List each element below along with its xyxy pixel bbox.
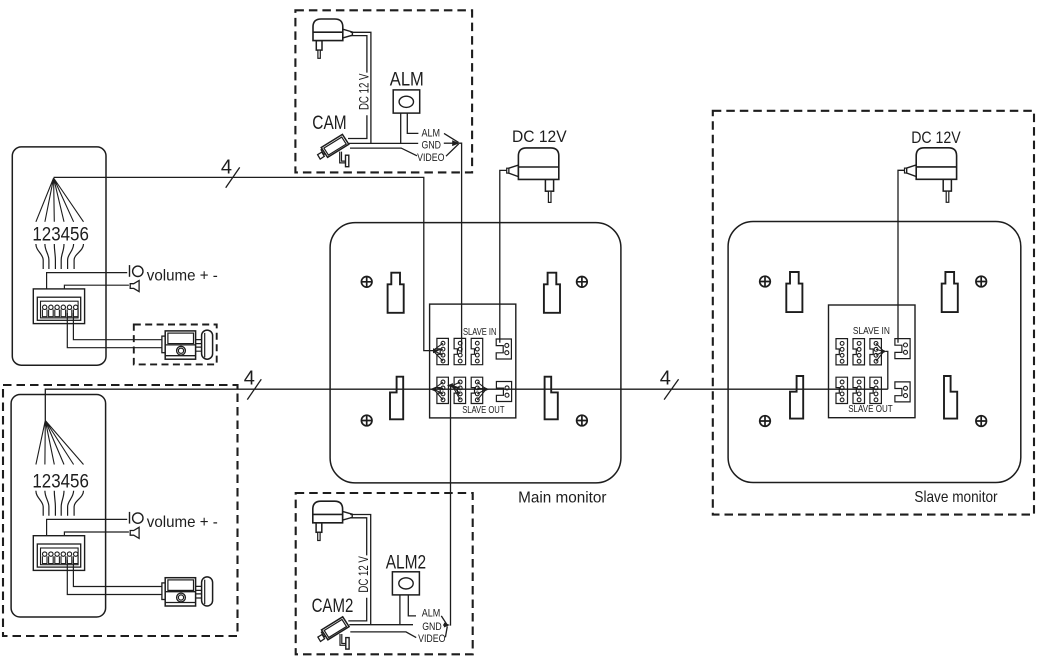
CAM2 VIDEO wire bbox=[350, 632, 416, 638]
main slave-in plug 1 bbox=[437, 338, 449, 364]
svg-text:CAM: CAM bbox=[312, 112, 346, 134]
main slave-out plug 2 wire fan bbox=[452, 382, 460, 400]
main monitor screw top-left bbox=[361, 277, 372, 288]
main monitor tab bottom-right bbox=[545, 377, 558, 420]
slave monitor screw top-right bbox=[976, 276, 987, 287]
slave slave-in plug 2 bbox=[853, 339, 865, 365]
slave monitor outline bbox=[728, 222, 1021, 483]
svg-text:DC 12V: DC 12V bbox=[911, 128, 961, 147]
ALM2 sensor wire to ALM bbox=[408, 595, 416, 616]
CAM dashed enclosure bbox=[295, 10, 472, 172]
svg-text:SLAVE IN: SLAVE IN bbox=[463, 326, 497, 338]
door station 2 dashed enclosure bbox=[3, 385, 238, 636]
CAM VIDEO wire bbox=[350, 148, 417, 156]
slave monitor dashed enclosure bbox=[713, 111, 1034, 515]
CAM power cord outer bbox=[351, 32, 371, 143]
ALM2 sensor ellipse bbox=[399, 578, 413, 589]
CAM2 bundle arrowhead bbox=[444, 623, 450, 628]
slave terminal panel bbox=[829, 305, 916, 418]
main slave-in power plug bbox=[496, 339, 511, 359]
lock 1 dashed enclosure bbox=[134, 325, 217, 365]
svg-text:DC 12 V: DC 12 V bbox=[356, 74, 371, 111]
svg-text:VIDEO: VIDEO bbox=[418, 633, 446, 645]
main monitor tab top-left bbox=[388, 273, 404, 313]
door station 2 outline bbox=[11, 395, 106, 618]
CAM2 power cord inner lower bbox=[348, 598, 366, 621]
main slave-out plug 2 arrowhead bbox=[447, 383, 453, 388]
ALM sensor wire to ALM bbox=[407, 113, 418, 133]
slave monitor screw bottom-left bbox=[760, 416, 771, 427]
station 2 bus slash bbox=[247, 379, 261, 399]
slave slave-in plug 1 bbox=[836, 339, 848, 365]
door station 2 wire fan bbox=[36, 421, 84, 465]
CAM GND wire bbox=[349, 142, 418, 144]
CAM bundle arrowhead bbox=[452, 140, 459, 146]
CAM2 power adapter bbox=[313, 501, 352, 540]
svg-text:4: 4 bbox=[244, 368, 255, 390]
svg-text:ALM: ALM bbox=[422, 608, 441, 620]
svg-text:Slave monitor: Slave monitor bbox=[914, 489, 998, 506]
CAM2 bundle wire to main slave-out plug 2 bbox=[449, 386, 452, 626]
main slave-in plug 2 bbox=[454, 338, 466, 364]
CAM power cord inner upper bbox=[351, 36, 367, 73]
ALM2 merge diagonal bbox=[441, 616, 447, 625]
main monitor tab bottom-left bbox=[390, 377, 403, 420]
CAM2 power cord inner upper bbox=[350, 518, 366, 556]
main monitor outline bbox=[330, 223, 621, 483]
slave slave-out power plug bbox=[895, 382, 910, 402]
svg-text:DC 12 V: DC 12 V bbox=[356, 556, 371, 593]
slave monitor tab bottom-left bbox=[790, 376, 803, 419]
slave monitor tab top-left bbox=[786, 272, 802, 312]
main slave-out plug 1 arrowhead bbox=[430, 387, 436, 392]
GND merge segment bbox=[444, 142, 453, 144]
svg-text:SLAVE IN: SLAVE IN bbox=[853, 325, 890, 337]
slave slave-in plug 3 wire fan bbox=[876, 343, 884, 361]
slave slave-in plug 3 arrowhead bbox=[881, 349, 887, 354]
main monitor screw bottom-right bbox=[577, 415, 588, 426]
main slave-out plug 1 wire fan bbox=[434, 382, 443, 400]
door station 1 internals bbox=[32, 224, 217, 360]
svg-text:GND: GND bbox=[422, 140, 442, 152]
VIDEO merge diagonal bbox=[446, 144, 459, 156]
svg-text:SLAVE OUT: SLAVE OUT bbox=[848, 403, 893, 415]
main slave-in plug 3 bbox=[471, 338, 483, 364]
main monitor screw top-right bbox=[577, 277, 588, 288]
CAM2 GND wire bbox=[349, 624, 413, 626]
svg-text:Main monitor: Main monitor bbox=[518, 489, 607, 506]
slave DC adapter wire bbox=[898, 170, 905, 342]
ALM2 sensor wire to GND bbox=[399, 595, 401, 625]
main slave-out plug 2 bbox=[454, 377, 466, 403]
main slave-in plug 1 wire fan bbox=[433, 343, 443, 361]
CAM2 camera icon bbox=[318, 617, 349, 649]
CAM power cord inner lower bbox=[348, 115, 367, 138]
door station 1 wire fan bbox=[36, 178, 84, 222]
main monitor tab top-right bbox=[544, 273, 560, 313]
slave monitor tab top-right bbox=[942, 272, 958, 312]
ALM sensor wire to GND bbox=[400, 113, 402, 143]
slave riser wire bbox=[886, 351, 888, 389]
ALM sensor ellipse bbox=[399, 96, 413, 107]
station 1 bus wire to main slave-in plug 1 bbox=[54, 177, 433, 350]
CAM bundle wire to main slave-in plug 2 bbox=[459, 143, 462, 353]
door station 2 internals bbox=[32, 470, 217, 606]
slave DC adapter bbox=[905, 148, 957, 203]
main slave-out plug 3 wire fan bbox=[477, 382, 486, 400]
svg-text:4: 4 bbox=[660, 368, 671, 390]
main slave-in plug 1 arrowhead bbox=[433, 348, 439, 353]
slave slave-out plug 2 bbox=[853, 377, 865, 403]
interconnect slash bbox=[664, 379, 679, 399]
slave slave-out plug 1 bbox=[836, 377, 848, 403]
CAM power adapter bbox=[313, 19, 352, 58]
main DC adapter wire bbox=[500, 170, 507, 342]
slave slave-in plug 3 bbox=[870, 339, 882, 365]
main slave-out plug 1 bbox=[437, 377, 449, 403]
svg-text:ALM2: ALM2 bbox=[386, 553, 426, 574]
slave slave-in power plug bbox=[895, 339, 910, 359]
slave slave-out plug 3 bbox=[870, 377, 882, 403]
svg-text:ALM: ALM bbox=[422, 127, 441, 139]
ALM2 sensor box bbox=[392, 572, 419, 595]
svg-text:VIDEO: VIDEO bbox=[417, 152, 445, 164]
ALM merge diagonal bbox=[444, 133, 459, 142]
main terminal panel bbox=[430, 304, 516, 418]
main slave-out plug 3 arrowhead bbox=[484, 387, 490, 392]
svg-text:ALM: ALM bbox=[390, 70, 424, 91]
door station 1 outline bbox=[12, 147, 106, 365]
main slave-out power plug bbox=[496, 382, 511, 402]
ALM sensor box bbox=[393, 90, 420, 113]
slave monitor screw top-left bbox=[760, 276, 771, 287]
monitor interconnect bus wire bbox=[45, 389, 888, 420]
station 1 bus slash bbox=[226, 167, 240, 187]
VIDEO2 merge diagonal bbox=[445, 626, 447, 637]
main monitor screw bottom-left bbox=[361, 415, 372, 426]
svg-text:CAM2: CAM2 bbox=[312, 595, 354, 617]
slave monitor tab bottom-right bbox=[944, 376, 957, 419]
main slave-out plug 3 bbox=[471, 377, 483, 403]
svg-text:DC 12V: DC 12V bbox=[512, 127, 567, 146]
CAM camera icon bbox=[318, 134, 349, 166]
slave monitor screw bottom-right bbox=[976, 416, 987, 427]
main DC adapter bbox=[507, 148, 559, 203]
svg-text:GND: GND bbox=[422, 621, 442, 633]
svg-text:SLAVE OUT: SLAVE OUT bbox=[462, 404, 505, 416]
CAM2 power cord outer bbox=[350, 515, 370, 626]
GND2 merge segment bbox=[443, 624, 445, 626]
CAM2 dashed enclosure bbox=[296, 493, 473, 654]
svg-text:4: 4 bbox=[221, 157, 232, 179]
